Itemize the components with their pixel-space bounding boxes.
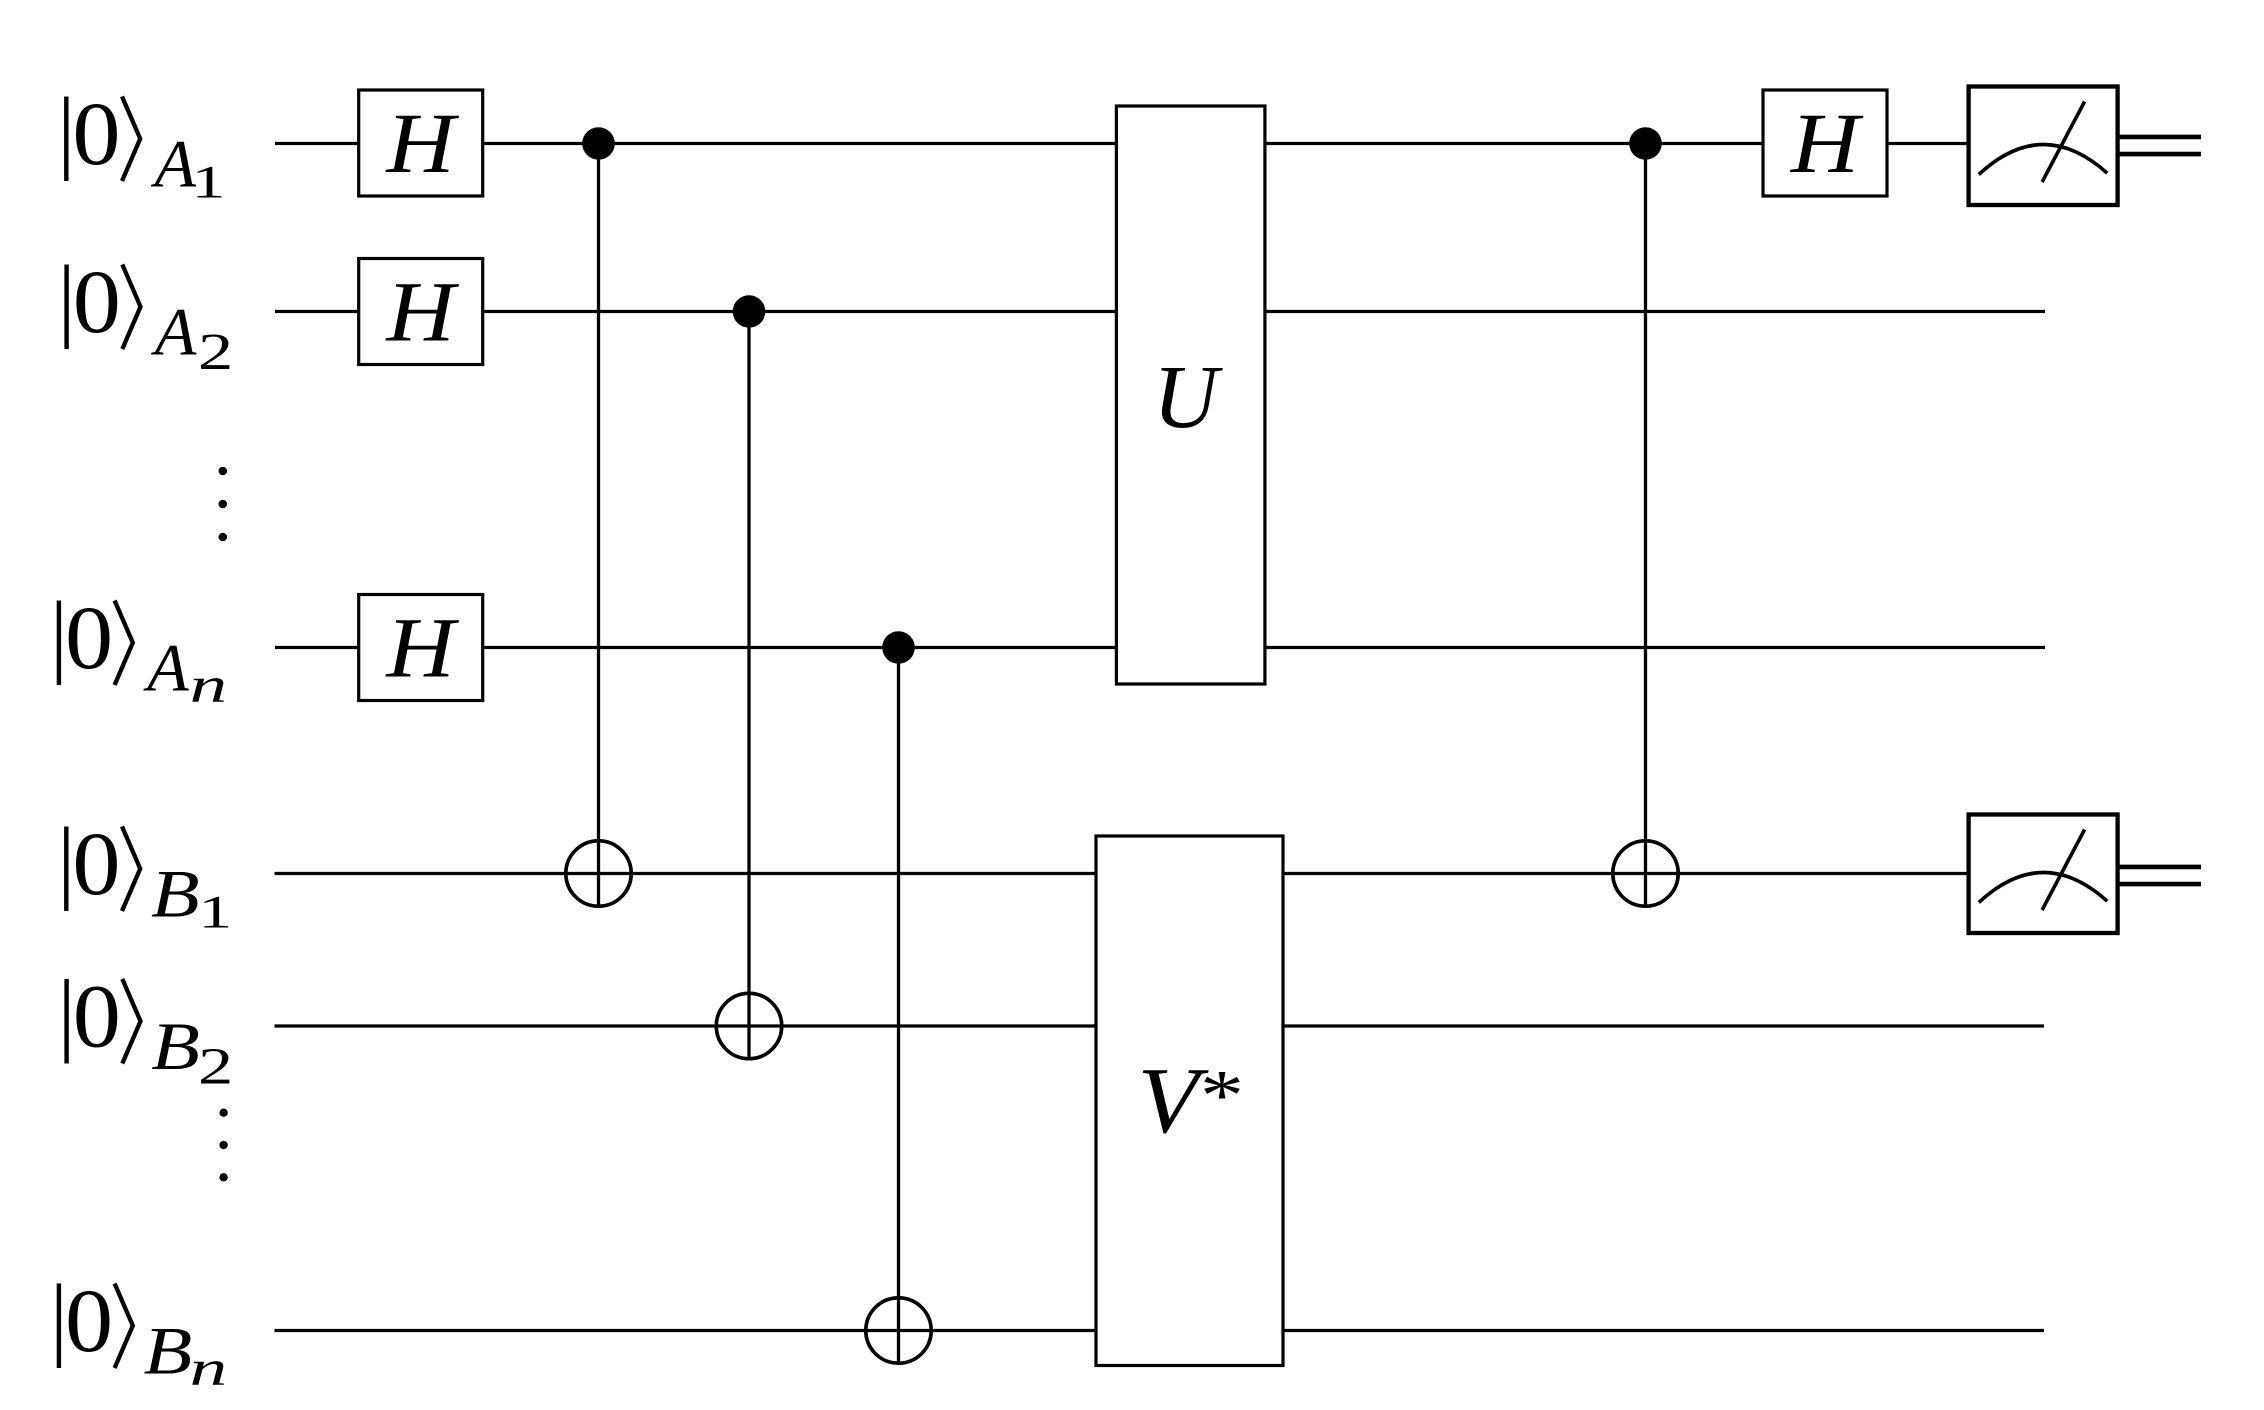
svg-text:H: H — [385, 95, 459, 191]
svg-text:A: A — [151, 126, 197, 202]
svg-text:0: 0 — [72, 85, 120, 184]
vertical ellipsis between B2 and Bn — [219, 1109, 227, 1182]
control dot CNOT2 on A2 — [733, 295, 766, 328]
measurement meter on B1 — [1969, 815, 2118, 934]
vertical ellipsis between A2 and An — [219, 467, 228, 542]
ket label |0>_A1 — [66, 85, 225, 208]
wire B2 — [275, 1024, 2045, 1027]
CNOT1 target on B1 — [566, 841, 631, 906]
control dot CNOT3 on An — [882, 631, 915, 664]
wire B1 — [275, 872, 1970, 875]
measurement meter on A1 — [1969, 87, 2118, 206]
svg-text:1: 1 — [198, 886, 232, 938]
svg-text:0: 0 — [73, 253, 121, 352]
classical double wire from meter B1 — [2118, 865, 2201, 870]
svg-text:B: B — [151, 857, 200, 932]
svg-text:V: V — [1138, 1049, 1209, 1153]
ket label |0>_A2 — [67, 253, 234, 381]
ket label |0>_Bn — [59, 1272, 227, 1396]
svg-text:B: B — [151, 1009, 200, 1084]
H gate 3 on An — [359, 595, 483, 701]
svg-text:n: n — [190, 1340, 227, 1396]
svg-text:0: 0 — [65, 1272, 113, 1371]
svg-text:0: 0 — [65, 589, 113, 688]
svg-text:A: A — [151, 294, 197, 370]
ket label |0>_B2 — [67, 967, 234, 1095]
control dot CNOT1 on A1 — [582, 127, 615, 160]
wire A1 — [275, 142, 1969, 145]
H gate 2 on A2 — [359, 259, 483, 365]
control wire CNOT2 A2-B2 — [747, 312, 750, 1061]
CNOT2 target on B2 — [716, 993, 781, 1058]
svg-text:0: 0 — [72, 815, 120, 914]
V* gate box — [1096, 836, 1283, 1366]
wire An — [275, 646, 2045, 649]
ket label |0>_B1 — [66, 815, 232, 938]
ket label |0>_An — [59, 589, 227, 713]
svg-text:A: A — [143, 630, 189, 706]
svg-text:B: B — [144, 1314, 193, 1389]
control wire CNOT1 A1-B1 — [597, 144, 600, 908]
svg-text:2: 2 — [198, 1038, 233, 1095]
svg-text:*: * — [1200, 1056, 1244, 1136]
H gate 1 on A1 — [359, 90, 483, 196]
H gate 4 on A1 (right) — [1763, 90, 1887, 196]
control wire CNOT4 A1-B1 right — [1644, 144, 1647, 908]
svg-text:U: U — [1153, 348, 1223, 447]
control dot CNOT4 on A1 — [1629, 127, 1662, 160]
CNOT3 target on Bn — [866, 1298, 931, 1363]
svg-text:H: H — [385, 599, 459, 695]
classical double wire from meter A1 — [2118, 135, 2201, 140]
svg-text:H: H — [1790, 95, 1864, 191]
CNOT4 target on B1 — [1613, 841, 1678, 906]
wire Bn — [275, 1329, 2045, 1332]
svg-text:2: 2 — [198, 324, 233, 381]
control wire CNOT3 An-Bn — [897, 648, 900, 1365]
svg-text:H: H — [385, 263, 459, 359]
U gate box — [1116, 106, 1265, 684]
svg-text:1: 1 — [192, 156, 226, 208]
svg-text:0: 0 — [73, 967, 121, 1066]
wire A2 — [275, 310, 2045, 313]
svg-text:n: n — [190, 657, 227, 713]
